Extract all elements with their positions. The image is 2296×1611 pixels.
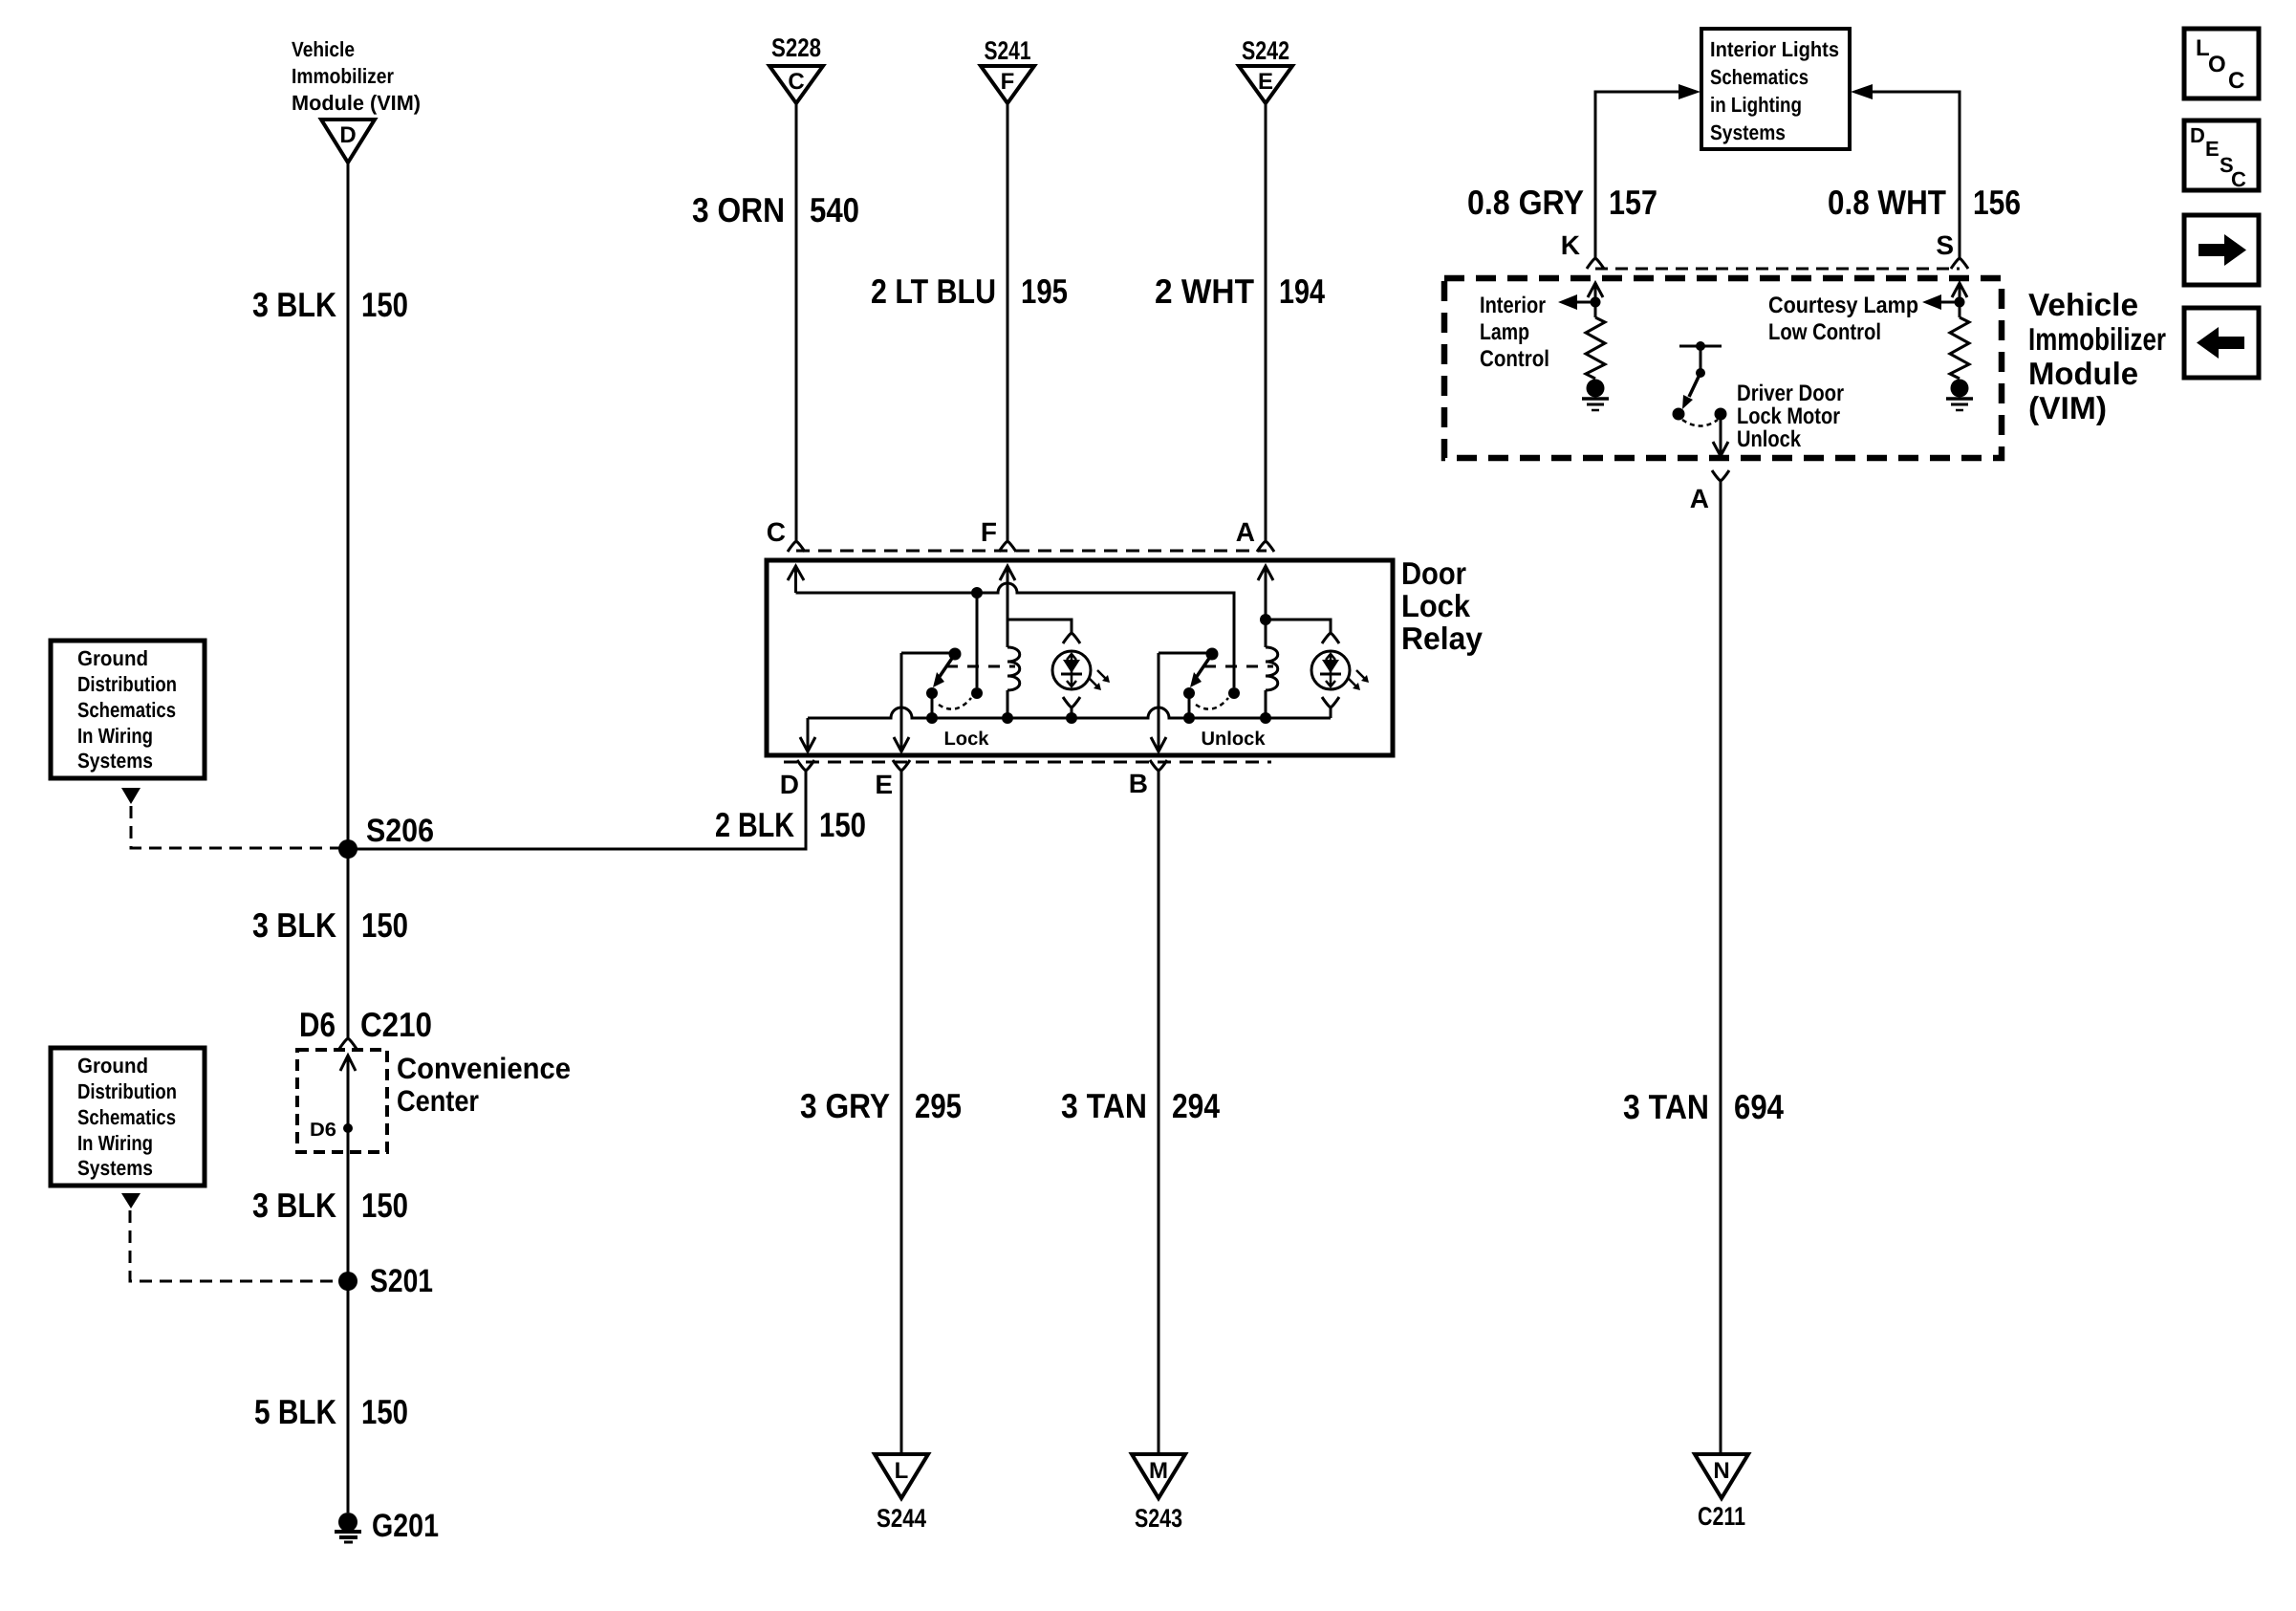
svg-text:3 BLK: 3 BLK	[252, 285, 336, 324]
wire 540 ORN: S228 to relay pin C	[795, 103, 798, 540]
svg-text:Schematics: Schematics	[77, 698, 176, 722]
unlock switch pivot	[1206, 648, 1219, 661]
nav box DESC	[2184, 120, 2259, 190]
svg-text:G201: G201	[372, 1508, 439, 1544]
branch wire to unlock indicator	[1266, 620, 1331, 633]
svg-text:694: 694	[1734, 1087, 1784, 1126]
connector N triangle (C211)	[1695, 1454, 1748, 1498]
svg-text:D: D	[780, 770, 799, 799]
coil bottom junction	[1002, 712, 1013, 724]
svg-text:(VIM): (VIM)	[2028, 390, 2107, 425]
svg-text:Center: Center	[397, 1084, 479, 1118]
lock switch common contacts	[926, 687, 938, 699]
svg-text:Low Control: Low Control	[1768, 319, 1881, 345]
svg-text:O: O	[2208, 52, 2226, 77]
arrow to Courtesy Lamp Low Control	[1941, 301, 1960, 304]
lock switch pivot	[949, 648, 962, 661]
svg-text:Schematics: Schematics	[77, 1105, 176, 1129]
label Door Lock Relay	[1401, 555, 1484, 656]
ground G201	[338, 1513, 357, 1532]
connector M triangle (S243)	[1132, 1454, 1185, 1498]
pointer from lower ground reference box	[121, 1193, 141, 1208]
label Courtesy Lamp Low Control	[1768, 293, 1918, 345]
svg-text:E: E	[2205, 137, 2220, 161]
driver door lock motor unlock switch	[1679, 345, 1722, 348]
branch wire to lock indicator	[1007, 620, 1072, 633]
lock switch feed wire from pin E	[901, 652, 949, 655]
svg-text:150: 150	[361, 905, 408, 945]
wire 195 LT BLU: S241 to relay pin F	[1007, 103, 1009, 540]
svg-text:2 BLK: 2 BLK	[715, 805, 794, 844]
svg-text:A: A	[1236, 517, 1255, 547]
nav box next arrow	[2184, 215, 2259, 285]
arrow to Interior Lamp Control	[1577, 301, 1595, 304]
wire 157 GRY from VIM pin K to Interior Lights	[1595, 92, 1679, 258]
svg-text:S228: S228	[771, 33, 821, 62]
svg-text:Unlock: Unlock	[1202, 729, 1267, 750]
pin fork S	[1951, 258, 1968, 269]
lock indicator top fork	[1063, 633, 1080, 643]
svg-text:5 BLK: 5 BLK	[254, 1392, 336, 1431]
svg-text:156: 156	[1973, 183, 2021, 222]
svg-text:195: 195	[1021, 272, 1068, 311]
svg-text:C: C	[767, 517, 786, 547]
lock LED emission arrows	[1089, 678, 1098, 687]
unlock switch travel arc	[1196, 698, 1228, 709]
svg-text:2 LT BLU: 2 LT BLU	[871, 272, 996, 311]
svg-text:Distribution: Distribution	[77, 1079, 177, 1103]
svg-text:Control: Control	[1480, 346, 1549, 372]
svg-text:Lamp: Lamp	[1480, 319, 1529, 345]
label Vehicle Immobilizer Module (VIM) right	[2028, 287, 2166, 425]
svg-text:Ground: Ground	[77, 646, 148, 670]
unlock indicator LED	[1311, 651, 1350, 689]
wire from switch to pin A with down arrow	[1720, 414, 1722, 455]
svg-text:Lock: Lock	[944, 729, 990, 750]
unlock coil bottom junction	[1260, 712, 1271, 724]
svg-text:Module (VIM): Module (VIM)	[292, 91, 421, 115]
svg-text:3 TAN: 3 TAN	[1061, 1086, 1147, 1125]
unlock indicator top fork	[1322, 633, 1339, 643]
svg-text:3 BLK: 3 BLK	[252, 905, 336, 945]
arrowhead into Interior Lights box (right)	[1851, 84, 1873, 99]
svg-text:Interior: Interior	[1480, 293, 1546, 318]
unlock switch feed wire from pin B	[1159, 652, 1206, 655]
label: Vehicle Immobilizer Module (VIM) top-left	[292, 37, 421, 115]
svg-text:F: F	[981, 517, 997, 547]
label Driver Door Lock Motor Unlock	[1737, 381, 1844, 452]
wire junction to lock NC contact	[976, 593, 979, 687]
svg-text:Vehicle: Vehicle	[292, 37, 355, 61]
pin fork A	[1257, 541, 1274, 552]
svg-text:S241: S241	[985, 36, 1031, 65]
wire 150 BLK: VIM pin D to S206	[347, 163, 350, 849]
reference box: Ground Distribution Schematics In Wiring Systems (upper)	[51, 641, 205, 778]
lock LED bottom junction	[1066, 712, 1077, 724]
lock switch travel arc	[939, 698, 971, 709]
VIM S internal up arrow	[1952, 283, 1967, 297]
relay pin C arrow	[788, 566, 804, 580]
svg-text:194: 194	[1279, 272, 1325, 311]
svg-text:C211: C211	[1698, 1502, 1745, 1531]
svg-text:Immobilizer: Immobilizer	[2028, 321, 2166, 357]
harness connector dashed line at relay top	[796, 550, 1267, 553]
svg-text:Interior Lights: Interior Lights	[1710, 37, 1839, 61]
connector dashed line at VIM top	[1595, 268, 1960, 271]
pin fork D	[797, 760, 814, 771]
svg-text:B: B	[1129, 769, 1148, 798]
reference box: Ground Distribution Schematics In Wiring Systems (lower)	[51, 1048, 205, 1186]
svg-text:D: D	[2190, 123, 2205, 147]
lock indicator LED	[1052, 651, 1091, 689]
pointer from upper ground reference box	[121, 788, 141, 804]
dashed leader to S206	[131, 806, 340, 848]
svg-text:150: 150	[819, 805, 866, 844]
junction on A wire	[1260, 614, 1271, 625]
wire 156 WHT from VIM pin S to Interior Lights	[1873, 92, 1960, 258]
svg-text:2 WHT: 2 WHT	[1155, 272, 1254, 311]
junction D6 inside Convenience Center	[343, 1123, 353, 1133]
svg-text:3 BLK: 3 BLK	[252, 1186, 336, 1225]
relay pin F arrow and wire with hop	[1000, 566, 1015, 580]
svg-text:S242: S242	[1242, 36, 1289, 65]
Convenience Center dashed box	[297, 1050, 387, 1152]
wire 150 BLK: S201 to G201	[347, 1281, 350, 1513]
svg-text:C: C	[2228, 68, 2244, 94]
svg-text:S201: S201	[370, 1263, 433, 1299]
Vehicle Immobilizer Module (VIM) dashed box	[1444, 278, 2002, 458]
svg-text:A: A	[1690, 484, 1709, 513]
wire from pin C to unlock NC contact	[796, 583, 1235, 687]
ground bus inside relay with hops	[808, 708, 1331, 718]
splice S201	[338, 1272, 357, 1291]
Door Lock Relay box	[767, 560, 1393, 755]
wire 194 WHT: S242 to relay pin A	[1265, 103, 1267, 540]
svg-text:S206: S206	[366, 813, 434, 849]
unlock switch common contacts	[1183, 687, 1195, 699]
svg-text:150: 150	[361, 1186, 408, 1225]
svg-text:D6: D6	[310, 1120, 336, 1141]
junction dot on S line	[1955, 297, 1965, 308]
connector D to VIM (triangle)	[321, 120, 375, 163]
svg-text:In Wiring: In Wiring	[77, 1131, 153, 1155]
svg-text:S244: S244	[877, 1504, 926, 1533]
wire through Convenience Center with up arrow	[347, 1056, 350, 1281]
svg-text:D: D	[339, 122, 356, 148]
svg-text:3 TAN: 3 TAN	[1623, 1087, 1709, 1126]
svg-text:Courtesy Lamp: Courtesy Lamp	[1768, 293, 1918, 318]
reference box: Interior Lights Schematics in Lighting Systems	[1701, 29, 1850, 149]
connector E triangle (S242)	[1239, 66, 1292, 103]
svg-text:Module: Module	[2028, 356, 2138, 391]
svg-text:Convenience: Convenience	[397, 1052, 571, 1085]
svg-text:295: 295	[915, 1086, 962, 1125]
connector L triangle (S244)	[875, 1454, 928, 1498]
svg-text:150: 150	[361, 1392, 408, 1431]
courtesy lamp driver resistor	[1950, 317, 1969, 379]
svg-text:C: C	[788, 69, 804, 95]
svg-text:Immobilizer: Immobilizer	[292, 64, 394, 88]
svg-text:157: 157	[1609, 183, 1657, 222]
svg-text:540: 540	[810, 190, 859, 229]
junction on C line	[971, 587, 983, 599]
unlock indicator bottom fork	[1322, 697, 1339, 708]
svg-text:Systems: Systems	[1710, 120, 1786, 144]
pin fork B	[1150, 760, 1167, 771]
harness connector dashed line at relay bottom	[784, 761, 1271, 764]
pin fork F	[999, 541, 1016, 552]
lock switch arm	[939, 657, 953, 678]
nav box previous arrow	[2184, 308, 2259, 378]
connector C triangle (S228)	[769, 66, 823, 103]
svg-text:Lock: Lock	[1401, 588, 1471, 623]
E riser down arrow	[900, 653, 903, 751]
svg-text:Distribution: Distribution	[77, 672, 177, 696]
switch travel arc	[1682, 420, 1718, 426]
pin fork at C210	[339, 1038, 357, 1049]
svg-text:L: L	[895, 1458, 909, 1484]
svg-text:150: 150	[361, 285, 408, 324]
svg-text:294: 294	[1172, 1086, 1220, 1125]
svg-text:E: E	[875, 770, 893, 799]
unlock switch linkage (dashed)	[1204, 665, 1273, 668]
lock switch linkage (dashed)	[946, 665, 1015, 668]
junction dot on K line	[1591, 297, 1601, 308]
dashed leader to S201	[130, 1210, 336, 1281]
svg-text:0.8 GRY: 0.8 GRY	[1467, 183, 1584, 222]
svg-text:N: N	[1713, 1458, 1729, 1484]
pin fork C	[788, 541, 805, 552]
unlock LED emission arrows	[1348, 678, 1357, 687]
svg-text:0.8 WHT: 0.8 WHT	[1828, 183, 1946, 222]
svg-text:Schematics: Schematics	[1710, 65, 1809, 89]
svg-text:F: F	[1001, 69, 1015, 95]
svg-text:3 ORN: 3 ORN	[692, 190, 785, 229]
unlock NC contact dot	[1228, 687, 1240, 699]
relay pin A arrow and wire	[1258, 566, 1273, 580]
svg-text:Driver Door: Driver Door	[1737, 381, 1844, 406]
svg-text:M: M	[1149, 1458, 1168, 1484]
nav box LOC	[2184, 29, 2259, 98]
wire 295 GRY: relay pin E to S244	[900, 771, 903, 1453]
lock relay coil	[1007, 647, 1020, 690]
svg-text:E: E	[1258, 69, 1273, 95]
lock indicator bottom fork	[1063, 697, 1080, 708]
svg-text:Systems: Systems	[77, 1156, 153, 1180]
interior lamp driver resistor	[1586, 317, 1605, 379]
wire 150 BLK: S206 to relay pin D	[348, 771, 806, 849]
wire 294 TAN: relay pin B to S243	[1158, 771, 1160, 1453]
VIM K internal up arrow	[1588, 283, 1603, 297]
svg-text:Unlock: Unlock	[1737, 426, 1802, 452]
svg-text:in Lighting: in Lighting	[1710, 93, 1802, 117]
B riser down arrow	[1158, 653, 1160, 751]
pin fork E	[893, 760, 910, 771]
pin fork A (VIM bottom)	[1712, 470, 1729, 481]
connector F triangle (S241)	[981, 66, 1034, 103]
svg-text:Door: Door	[1401, 555, 1466, 591]
ground inside VIM (left)	[1587, 380, 1605, 398]
bus to pin D with down arrow	[807, 718, 810, 751]
svg-text:S243: S243	[1135, 1504, 1182, 1533]
unlock relay coil	[1266, 647, 1278, 690]
splice S206	[338, 839, 357, 859]
svg-text:3 GRY: 3 GRY	[800, 1086, 890, 1125]
lock NC contact dot	[971, 687, 983, 699]
svg-text:D6: D6	[299, 1005, 336, 1044]
svg-text:Vehicle: Vehicle	[2028, 287, 2138, 322]
svg-text:Systems: Systems	[77, 749, 153, 773]
unlock switch arm	[1196, 657, 1210, 678]
label Interior Lamp Control	[1480, 293, 1549, 372]
svg-text:K: K	[1561, 230, 1580, 260]
wire 150 BLK: S206 to C210	[347, 849, 350, 1037]
svg-text:Relay: Relay	[1401, 620, 1484, 656]
svg-text:S: S	[1936, 230, 1954, 260]
svg-text:Lock Motor: Lock Motor	[1737, 403, 1840, 429]
pin fork K	[1587, 258, 1604, 269]
svg-text:C210: C210	[360, 1005, 432, 1044]
svg-text:Ground: Ground	[77, 1054, 148, 1078]
svg-text:In Wiring: In Wiring	[77, 724, 153, 748]
arrowhead into Interior Lights box (left)	[1679, 84, 1700, 99]
wire 694 TAN: VIM pin A to C211	[1720, 481, 1722, 1453]
ground inside VIM (right)	[1951, 380, 1969, 398]
svg-text:C: C	[2231, 167, 2246, 191]
